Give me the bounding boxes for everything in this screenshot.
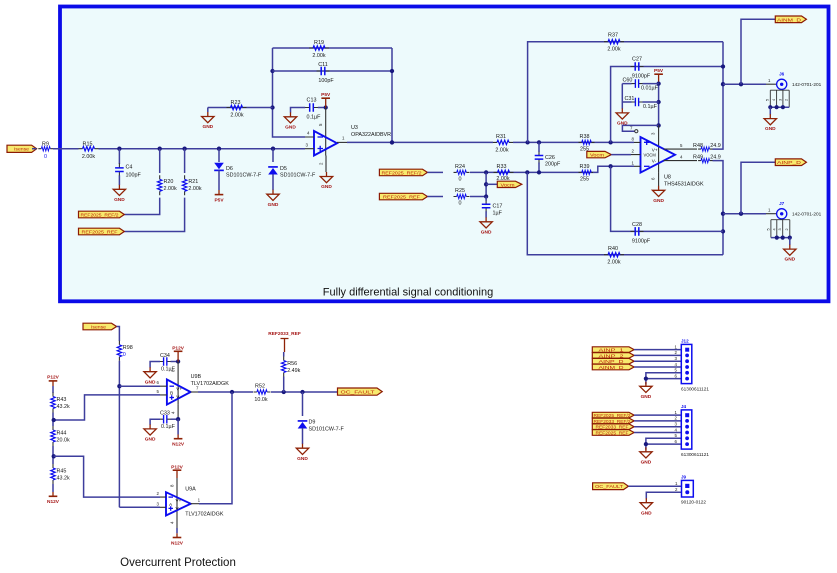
wire AINP_D riser bbox=[741, 162, 775, 214]
svg-text:R49: R49 bbox=[693, 154, 703, 160]
wire R25 to C17 node bbox=[470, 196, 486, 198]
svg-text:142-0701-201: 142-0701-201 bbox=[792, 212, 822, 217]
svg-text:U8: U8 bbox=[664, 175, 671, 181]
node junction D6 bbox=[217, 147, 221, 151]
ground below D9 bbox=[296, 444, 308, 462]
resistor R33 bbox=[494, 164, 514, 182]
flag REF2025_REF upper-left bbox=[79, 228, 125, 235]
capacitor C13 bbox=[305, 98, 321, 121]
wire D6 to P5V bbox=[218, 170, 220, 190]
svg-text:R39: R39 bbox=[580, 164, 590, 170]
ground left of C34 bbox=[144, 367, 156, 385]
svg-text:P5V: P5V bbox=[321, 92, 331, 98]
wire pin6 row bbox=[119, 385, 160, 387]
wire R49 to AINP net bbox=[713, 161, 724, 255]
ground below J7 bbox=[784, 245, 796, 263]
node junction outputs wire-or bbox=[230, 390, 234, 394]
node junction J12 gnd bbox=[644, 377, 648, 381]
wire R37 feedback left vertical bbox=[528, 42, 723, 143]
wire R23 to gnd stem bbox=[207, 108, 209, 113]
wire pin5 row from divider bbox=[54, 395, 160, 420]
wire R23 row bbox=[208, 107, 273, 109]
capacitor C28 bbox=[631, 222, 651, 244]
wire J7 row bbox=[723, 213, 766, 215]
resistor R37 bbox=[604, 33, 624, 53]
flag AINM_D bbox=[775, 16, 806, 23]
svg-text:REF2025_REF: REF2025_REF bbox=[383, 195, 420, 200]
wires J12 pins 1-4 bbox=[634, 350, 681, 367]
wire R39 jog to U8 pin1 bbox=[593, 166, 634, 172]
svg-text:C60: C60 bbox=[623, 78, 633, 84]
wires J4 pins 5,6 to gnd bbox=[646, 438, 681, 450]
wire J9 pin1 bbox=[628, 485, 681, 487]
svg-text:3: 3 bbox=[778, 99, 782, 101]
ground below J12 wires bbox=[640, 382, 652, 400]
svg-text:0.1µF: 0.1µF bbox=[643, 104, 658, 110]
svg-text:24.9: 24.9 bbox=[710, 143, 721, 149]
connector J7 142-0701-201 bbox=[766, 201, 822, 245]
wire R21 drop bbox=[184, 149, 186, 173]
wire C4 to gnd bbox=[118, 175, 120, 185]
wire J6 row bbox=[723, 83, 766, 85]
wire REF2033 to R56 bbox=[283, 352, 285, 357]
wire PD pin7 loop bbox=[622, 125, 658, 131]
wire U3 pin5 bbox=[325, 108, 327, 156]
node junction pin6 bbox=[117, 384, 121, 388]
svg-text:SD101CW-7-F: SD101CW-7-F bbox=[226, 173, 262, 179]
svg-text:24.9: 24.9 bbox=[710, 154, 721, 160]
svg-text:J6: J6 bbox=[779, 72, 785, 77]
svg-text:C13: C13 bbox=[307, 98, 317, 104]
ground below J9 bbox=[640, 498, 652, 516]
svg-text:SD101CW-7-F: SD101CW-7-F bbox=[309, 426, 345, 432]
capacitor C27 bbox=[631, 57, 651, 80]
svg-text:2.00k: 2.00k bbox=[607, 47, 620, 53]
wire R24 to R33 row bbox=[470, 171, 593, 173]
svg-text:V+: V+ bbox=[176, 498, 182, 503]
pin7 open circle bbox=[635, 130, 638, 133]
node junction D5 bbox=[271, 147, 275, 151]
svg-text:2.00k: 2.00k bbox=[230, 112, 243, 118]
svg-text:B: B bbox=[170, 391, 173, 397]
resistor R98 bbox=[117, 341, 132, 361]
svg-text:2: 2 bbox=[785, 99, 789, 101]
svg-text:0: 0 bbox=[44, 154, 47, 160]
capacitor C33 bbox=[159, 411, 175, 431]
power P5V above U3 bbox=[321, 92, 331, 108]
wire V+ rail vertical bbox=[658, 84, 660, 126]
svg-text:R45: R45 bbox=[57, 469, 67, 475]
svg-text:VOCM: VOCM bbox=[644, 152, 657, 157]
capacitor C26 bbox=[535, 142, 561, 172]
wire R20 to flag REF2025_REF/2 bbox=[124, 198, 159, 215]
svg-text:Vocm: Vocm bbox=[501, 182, 515, 187]
svg-text:U3: U3 bbox=[351, 125, 358, 131]
svg-text:C11: C11 bbox=[318, 62, 328, 68]
wire divider lower to U9A pin2 bbox=[54, 456, 160, 497]
ground below J6 bbox=[764, 114, 776, 132]
resistor R9 bbox=[38, 142, 53, 160]
svg-text:C34: C34 bbox=[160, 353, 170, 359]
svg-text:20.0k: 20.0k bbox=[57, 437, 70, 443]
svg-text:AINP_D: AINP_D bbox=[777, 160, 802, 165]
svg-text:P5V: P5V bbox=[214, 197, 224, 203]
node junction C26 bottom bbox=[537, 170, 541, 174]
wire U9B output bbox=[191, 391, 198, 393]
wire Isense to R9 bbox=[32, 148, 37, 150]
power N12V below U9B bbox=[172, 439, 185, 448]
resistor R52 bbox=[254, 384, 271, 403]
wire C4 drop bbox=[118, 149, 120, 164]
power flag REF2033_REF bbox=[268, 331, 301, 352]
svg-text:200pF: 200pF bbox=[545, 162, 561, 168]
wires J12 pins 5,6 to gnd bbox=[646, 373, 681, 385]
resistor R15 bbox=[79, 141, 99, 159]
svg-text:C4: C4 bbox=[126, 165, 133, 171]
wire C34 right to P12V node bbox=[171, 361, 179, 363]
svg-text:3: 3 bbox=[778, 228, 782, 230]
svg-text:R25: R25 bbox=[455, 188, 465, 194]
svg-text:R9: R9 bbox=[42, 142, 49, 148]
wires J4 pins 1-4 bbox=[634, 415, 681, 432]
svg-text:5: 5 bbox=[766, 228, 770, 230]
resistor R31 bbox=[493, 134, 513, 154]
svg-text:0: 0 bbox=[459, 177, 462, 183]
flag AINP_1 bbox=[592, 347, 634, 353]
node junction R31/R37 bbox=[525, 140, 529, 144]
node junction Vocm tap bbox=[484, 182, 488, 186]
wire flag to R24 bbox=[427, 171, 443, 173]
node junction C28 row bbox=[721, 229, 725, 233]
svg-text:1µF: 1µF bbox=[493, 211, 503, 217]
svg-text:2.00k: 2.00k bbox=[188, 186, 201, 192]
ground left of C13 bbox=[284, 112, 296, 130]
wire C33 left to gnd bbox=[150, 419, 160, 425]
svg-text:P12V: P12V bbox=[47, 374, 60, 380]
node junction J6/AINM_D bbox=[739, 82, 743, 86]
svg-text:0: 0 bbox=[123, 352, 126, 358]
node junction R20 bbox=[158, 147, 162, 151]
svg-text:0.1µF: 0.1µF bbox=[307, 115, 322, 121]
node junction J7/AINP_D bbox=[739, 212, 743, 216]
power P12V left rail bbox=[47, 374, 60, 386]
node junction C11 right bbox=[390, 69, 394, 73]
capacitor C31 bbox=[622, 96, 658, 110]
svg-text:V-: V- bbox=[176, 395, 181, 400]
wire R21 to flag REF2025_REF bbox=[124, 198, 184, 232]
power P12V above U9B bbox=[172, 345, 185, 361]
svg-text:R19: R19 bbox=[314, 40, 324, 46]
svg-text:2: 2 bbox=[785, 228, 789, 230]
wire P12V to R43 bbox=[52, 386, 54, 393]
wire U9B V- pin4 to N12V bbox=[177, 405, 179, 420]
node junction C31 right bbox=[656, 100, 660, 104]
svg-text:P12V: P12V bbox=[172, 345, 185, 351]
svg-text:R31: R31 bbox=[496, 134, 506, 140]
ground below C31 left bbox=[616, 108, 628, 126]
flag AINP_D bbox=[775, 159, 806, 166]
svg-text:R23: R23 bbox=[231, 100, 241, 106]
node junction C60 right bbox=[656, 81, 660, 85]
ground below J4 wires bbox=[640, 447, 652, 465]
wire D9 to gnd bbox=[302, 428, 304, 444]
svg-text:4: 4 bbox=[772, 99, 776, 101]
svg-text:AINM_D: AINM_D bbox=[777, 17, 802, 22]
wire U8 V+ pin3 bbox=[658, 125, 660, 172]
svg-text:R48: R48 bbox=[693, 143, 703, 149]
resistor R20 bbox=[158, 175, 177, 195]
wire U9A V+ pin8 bbox=[176, 478, 178, 516]
power N12V below U9A bbox=[171, 538, 184, 547]
svg-text:V-: V- bbox=[652, 158, 657, 163]
wire J9 pin2 to gnd bbox=[646, 492, 681, 498]
svg-text:Vocm: Vocm bbox=[590, 153, 604, 158]
wire R98 to pin6 node bbox=[118, 361, 120, 508]
svg-text:R24: R24 bbox=[455, 164, 465, 170]
power P5V below D6 bbox=[214, 195, 224, 204]
power N12V left rail bbox=[47, 496, 60, 505]
wire Vocm tap vertical bbox=[485, 172, 487, 196]
ground left of C33 bbox=[144, 424, 156, 442]
wire D9 drop bbox=[302, 392, 304, 416]
svg-text:AINP_2: AINP_2 bbox=[599, 353, 625, 358]
resistor R43 bbox=[51, 393, 70, 413]
svg-text:AINP_1: AINP_1 bbox=[599, 348, 625, 353]
connector J9 90120-0122 bbox=[675, 475, 706, 505]
svg-text:2.00k: 2.00k bbox=[607, 260, 620, 266]
svg-text:REF2033_REF: REF2033_REF bbox=[268, 331, 301, 337]
wire to Vocm flag lower bbox=[486, 183, 497, 185]
wire U9A V- to N12V bbox=[176, 516, 178, 529]
node junction AINP J7 row bbox=[721, 212, 725, 216]
flag OC_FAULT bbox=[338, 388, 383, 395]
svg-text:0: 0 bbox=[459, 201, 462, 207]
wire D6 drop bbox=[218, 149, 220, 162]
node junction U9B V+ bbox=[176, 359, 180, 363]
main block: fully differential signal conditioning box bbox=[60, 7, 829, 302]
diode D6 bbox=[214, 163, 262, 179]
wire R40 bottom row bbox=[527, 172, 723, 254]
node junction U3 output feedback bbox=[390, 140, 394, 144]
svg-text:AINP_D: AINP_D bbox=[599, 359, 625, 364]
node junction R25/C17 bbox=[484, 194, 488, 198]
ground left of R23 bbox=[202, 112, 214, 130]
wire R19 top row bbox=[273, 47, 393, 49]
resistor R40 bbox=[604, 246, 624, 266]
svg-text:R33: R33 bbox=[497, 164, 507, 170]
svg-text:C28: C28 bbox=[632, 222, 642, 228]
svg-text:2.00k: 2.00k bbox=[164, 186, 177, 192]
wire D5 to gnd bbox=[272, 174, 274, 190]
svg-text:C31: C31 bbox=[625, 96, 635, 102]
node junction R33/R40 bbox=[525, 170, 529, 174]
svg-text:REF2033_REF: REF2033_REF bbox=[596, 425, 629, 430]
resistor R21 bbox=[182, 175, 201, 195]
node junction pin5 rail bbox=[324, 105, 328, 109]
svg-text:U9A: U9A bbox=[185, 487, 196, 493]
capacitor C4 bbox=[115, 163, 141, 178]
diode D9 bbox=[298, 420, 345, 433]
wire R98 node to U9A pin3 bbox=[119, 506, 160, 508]
flag AINP_2 bbox=[592, 353, 634, 359]
flag REF2025_REF middle lower bbox=[379, 193, 427, 200]
svg-text:R38: R38 bbox=[580, 134, 590, 140]
wire U9A output up to node bbox=[191, 503, 199, 505]
svg-text:2.49k: 2.49k bbox=[287, 368, 300, 374]
svg-text:142-0701-201: 142-0701-201 bbox=[792, 82, 822, 87]
ground below C4 bbox=[113, 185, 125, 203]
svg-text:R56: R56 bbox=[287, 361, 297, 367]
svg-text:C17: C17 bbox=[493, 204, 503, 210]
svg-text:V+: V+ bbox=[176, 387, 182, 392]
wire C13 left to gnd bbox=[291, 108, 306, 113]
wire U8 V- to gnd bbox=[658, 173, 660, 186]
pin stubs U9A bbox=[160, 497, 166, 507]
svg-text:C26: C26 bbox=[545, 155, 555, 161]
svg-text:J7: J7 bbox=[779, 201, 785, 206]
wire C28 row bbox=[611, 166, 723, 231]
wire R56 to output node bbox=[283, 377, 285, 393]
svg-text:100pF: 100pF bbox=[318, 78, 334, 84]
node junction AINM J6 row bbox=[721, 82, 725, 86]
svg-text:TLV1702AIDGK: TLV1702AIDGK bbox=[185, 511, 224, 517]
node junction AINM C27 bbox=[721, 64, 725, 68]
svg-text:SD101CW-7-F: SD101CW-7-F bbox=[280, 173, 316, 179]
wire R31 to R38 row bbox=[513, 141, 634, 143]
svg-text:R15: R15 bbox=[83, 141, 93, 147]
wire C27 row bbox=[611, 67, 723, 143]
node junction C11 left bbox=[270, 69, 274, 73]
wire R20 drop bbox=[159, 149, 161, 173]
svg-text:2.00k: 2.00k bbox=[82, 154, 95, 160]
svg-text:R20: R20 bbox=[164, 179, 174, 185]
svg-text:Isense: Isense bbox=[14, 147, 29, 152]
wire R45 to N12V bbox=[52, 484, 54, 492]
resistor R25 bbox=[454, 188, 470, 207]
svg-text:J12: J12 bbox=[681, 339, 689, 344]
diode D5 bbox=[268, 166, 316, 179]
node junction J4 gnd bbox=[644, 442, 648, 446]
wire R52 to OC_FAULT bbox=[271, 391, 338, 393]
wire flag to R25 bbox=[427, 196, 443, 198]
svg-text:OC_FAULT: OC_FAULT bbox=[341, 390, 375, 395]
svg-text:Isense: Isense bbox=[91, 325, 106, 330]
wire C34 left to gnd bbox=[150, 362, 160, 368]
resistor R39 bbox=[579, 164, 595, 183]
wire U3 output bbox=[337, 141, 347, 143]
flag Isense (input) bbox=[7, 145, 37, 152]
resistor R48 bbox=[693, 143, 721, 152]
pin stubs U9B bbox=[160, 386, 167, 395]
connector J4 61300611121 bbox=[675, 404, 710, 457]
flag Vocm upper bbox=[587, 151, 612, 157]
svg-text:D9: D9 bbox=[309, 420, 316, 426]
svg-text:R37: R37 bbox=[608, 33, 618, 39]
svg-text:REF2025_REF/2: REF2025_REF/2 bbox=[594, 413, 631, 418]
power P12V above U9A bbox=[171, 465, 184, 478]
flag AINP_D bbox=[592, 358, 634, 364]
svg-text:100pF: 100pF bbox=[126, 173, 142, 179]
svg-text:0.1µF: 0.1µF bbox=[161, 424, 176, 430]
svg-text:Fully differential signal cond: Fully differential signal conditioning bbox=[323, 287, 493, 299]
resistor R19 bbox=[309, 40, 329, 59]
svg-text:D5: D5 bbox=[280, 166, 287, 172]
ground below U8 bbox=[652, 186, 664, 204]
node junction divider upper bbox=[52, 418, 56, 422]
node junction R24/R33 bbox=[484, 170, 488, 174]
node junction C26 top bbox=[537, 140, 541, 144]
svg-text:61300611121: 61300611121 bbox=[681, 452, 709, 457]
svg-text:U9B: U9B bbox=[191, 374, 202, 380]
svg-text:OPA322AIDBVR: OPA322AIDBVR bbox=[351, 132, 391, 138]
svg-text:REF2025_REF: REF2025_REF bbox=[596, 430, 629, 435]
svg-text:43.2k: 43.2k bbox=[57, 404, 70, 410]
wire main node row bbox=[99, 148, 306, 150]
svg-text:61300611121: 61300611121 bbox=[681, 387, 709, 392]
comparator U9B TLV1702AIDGK bbox=[167, 374, 229, 405]
wire R48 to AINM net bbox=[713, 42, 724, 149]
svg-text:R52: R52 bbox=[255, 384, 265, 390]
svg-text:255: 255 bbox=[580, 177, 589, 183]
wire Isense to R98 bbox=[117, 327, 120, 342]
flag REF2025_REF (J4) bbox=[592, 430, 634, 436]
ground below D5 bbox=[267, 190, 279, 208]
svg-text:J9: J9 bbox=[681, 475, 687, 480]
svg-text:V-: V- bbox=[176, 506, 181, 511]
node junction PD loop bbox=[656, 123, 660, 127]
svg-text:R44: R44 bbox=[57, 431, 67, 437]
svg-text:OC_FAULT: OC_FAULT bbox=[595, 484, 623, 489]
svg-text:R98: R98 bbox=[123, 345, 133, 351]
svg-text:N12V: N12V bbox=[172, 442, 185, 448]
svg-text:REF2025_REF/2: REF2025_REF/2 bbox=[81, 212, 119, 217]
svg-text:J4: J4 bbox=[681, 404, 687, 409]
wire U8 out+ pin5 bbox=[664, 148, 698, 150]
svg-text:C27: C27 bbox=[632, 57, 642, 63]
wire feedback right vertical to output bbox=[391, 48, 393, 142]
ground below U3 bbox=[320, 172, 332, 190]
svg-text:REF2025_REF: REF2025_REF bbox=[82, 229, 118, 234]
svg-text:0.01µF: 0.01µF bbox=[641, 86, 659, 92]
resistor R45 bbox=[51, 464, 70, 484]
pin stubs U8 left bbox=[631, 142, 641, 166]
wire R43 to R44 bbox=[52, 413, 54, 427]
capacitor C34 bbox=[159, 353, 175, 373]
resistor R49 bbox=[693, 154, 721, 162]
resistor R38 bbox=[579, 134, 595, 153]
svg-text:D6: D6 bbox=[226, 166, 233, 172]
resistor R44 bbox=[51, 426, 70, 446]
wire C60/C31 left vertical to gnd bbox=[621, 84, 623, 109]
flag OC_FAULT (J9) bbox=[593, 483, 629, 490]
svg-text:R40: R40 bbox=[608, 246, 618, 252]
flag Vocm lower bbox=[497, 181, 522, 187]
connector J12 61300611121 bbox=[675, 339, 710, 392]
node junction C4 bbox=[117, 147, 121, 151]
node junction C27 rail top row bbox=[608, 140, 612, 144]
node junction D9 bbox=[300, 390, 304, 394]
wire Vocm to pin2 bbox=[611, 154, 631, 156]
svg-text:10.0k: 10.0k bbox=[254, 397, 267, 403]
svg-text:REF2033_REF/2: REF2033_REF/2 bbox=[594, 419, 631, 424]
svg-text:90120-0122: 90120-0122 bbox=[681, 500, 706, 505]
node junction C28 rail bottom row bbox=[608, 164, 612, 168]
svg-text:C33: C33 bbox=[160, 411, 170, 417]
wire R9 to R15 (main input net) bbox=[53, 148, 79, 150]
wire AINM_D riser bbox=[741, 19, 775, 84]
node junction divider lower bbox=[52, 454, 56, 458]
op-amp U3 OPA322AIDBVR bbox=[314, 125, 391, 156]
